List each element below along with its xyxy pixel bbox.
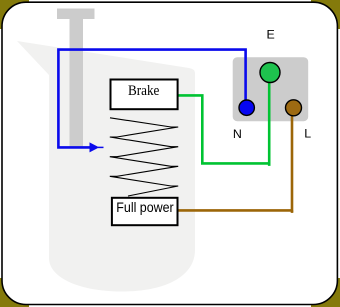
- olive corner patch bottom-left: [0, 278, 29, 307]
- terminal L (live, brown): [286, 100, 302, 116]
- terminal N (neutral, blue): [239, 100, 254, 115]
- olive corner patch bottom-right: [311, 278, 340, 307]
- svg-text:N: N: [233, 127, 242, 141]
- brown live wire: [179, 115, 293, 210]
- brown wire end stub: [291, 210, 294, 213]
- blue arrow tip line: [98, 146, 104, 148]
- svg-text:Full power: Full power: [116, 200, 174, 216]
- olive corner patch top-left: [0, 0, 29, 29]
- plug body: [233, 57, 309, 121]
- Brake box: [111, 80, 178, 110]
- heating coil zigzag: [110, 118, 178, 196]
- green earth wire from Brake box to plug E: [179, 95, 271, 163]
- blue arrowhead: [90, 142, 100, 152]
- olive corner patch top-right: [311, 0, 340, 29]
- kettle jug body: [17, 41, 195, 292]
- blue neutral wire: [58, 50, 245, 148]
- green earth wire vertical into E terminal: [268, 80, 271, 166]
- svg-text:E: E: [266, 28, 274, 42]
- terminal E (earth, green): [260, 63, 280, 83]
- svg-text:Brake: Brake: [128, 83, 159, 99]
- Full power box: [112, 198, 178, 225]
- kettle element T handle: [57, 9, 95, 149]
- svg-text:L: L: [304, 127, 311, 141]
